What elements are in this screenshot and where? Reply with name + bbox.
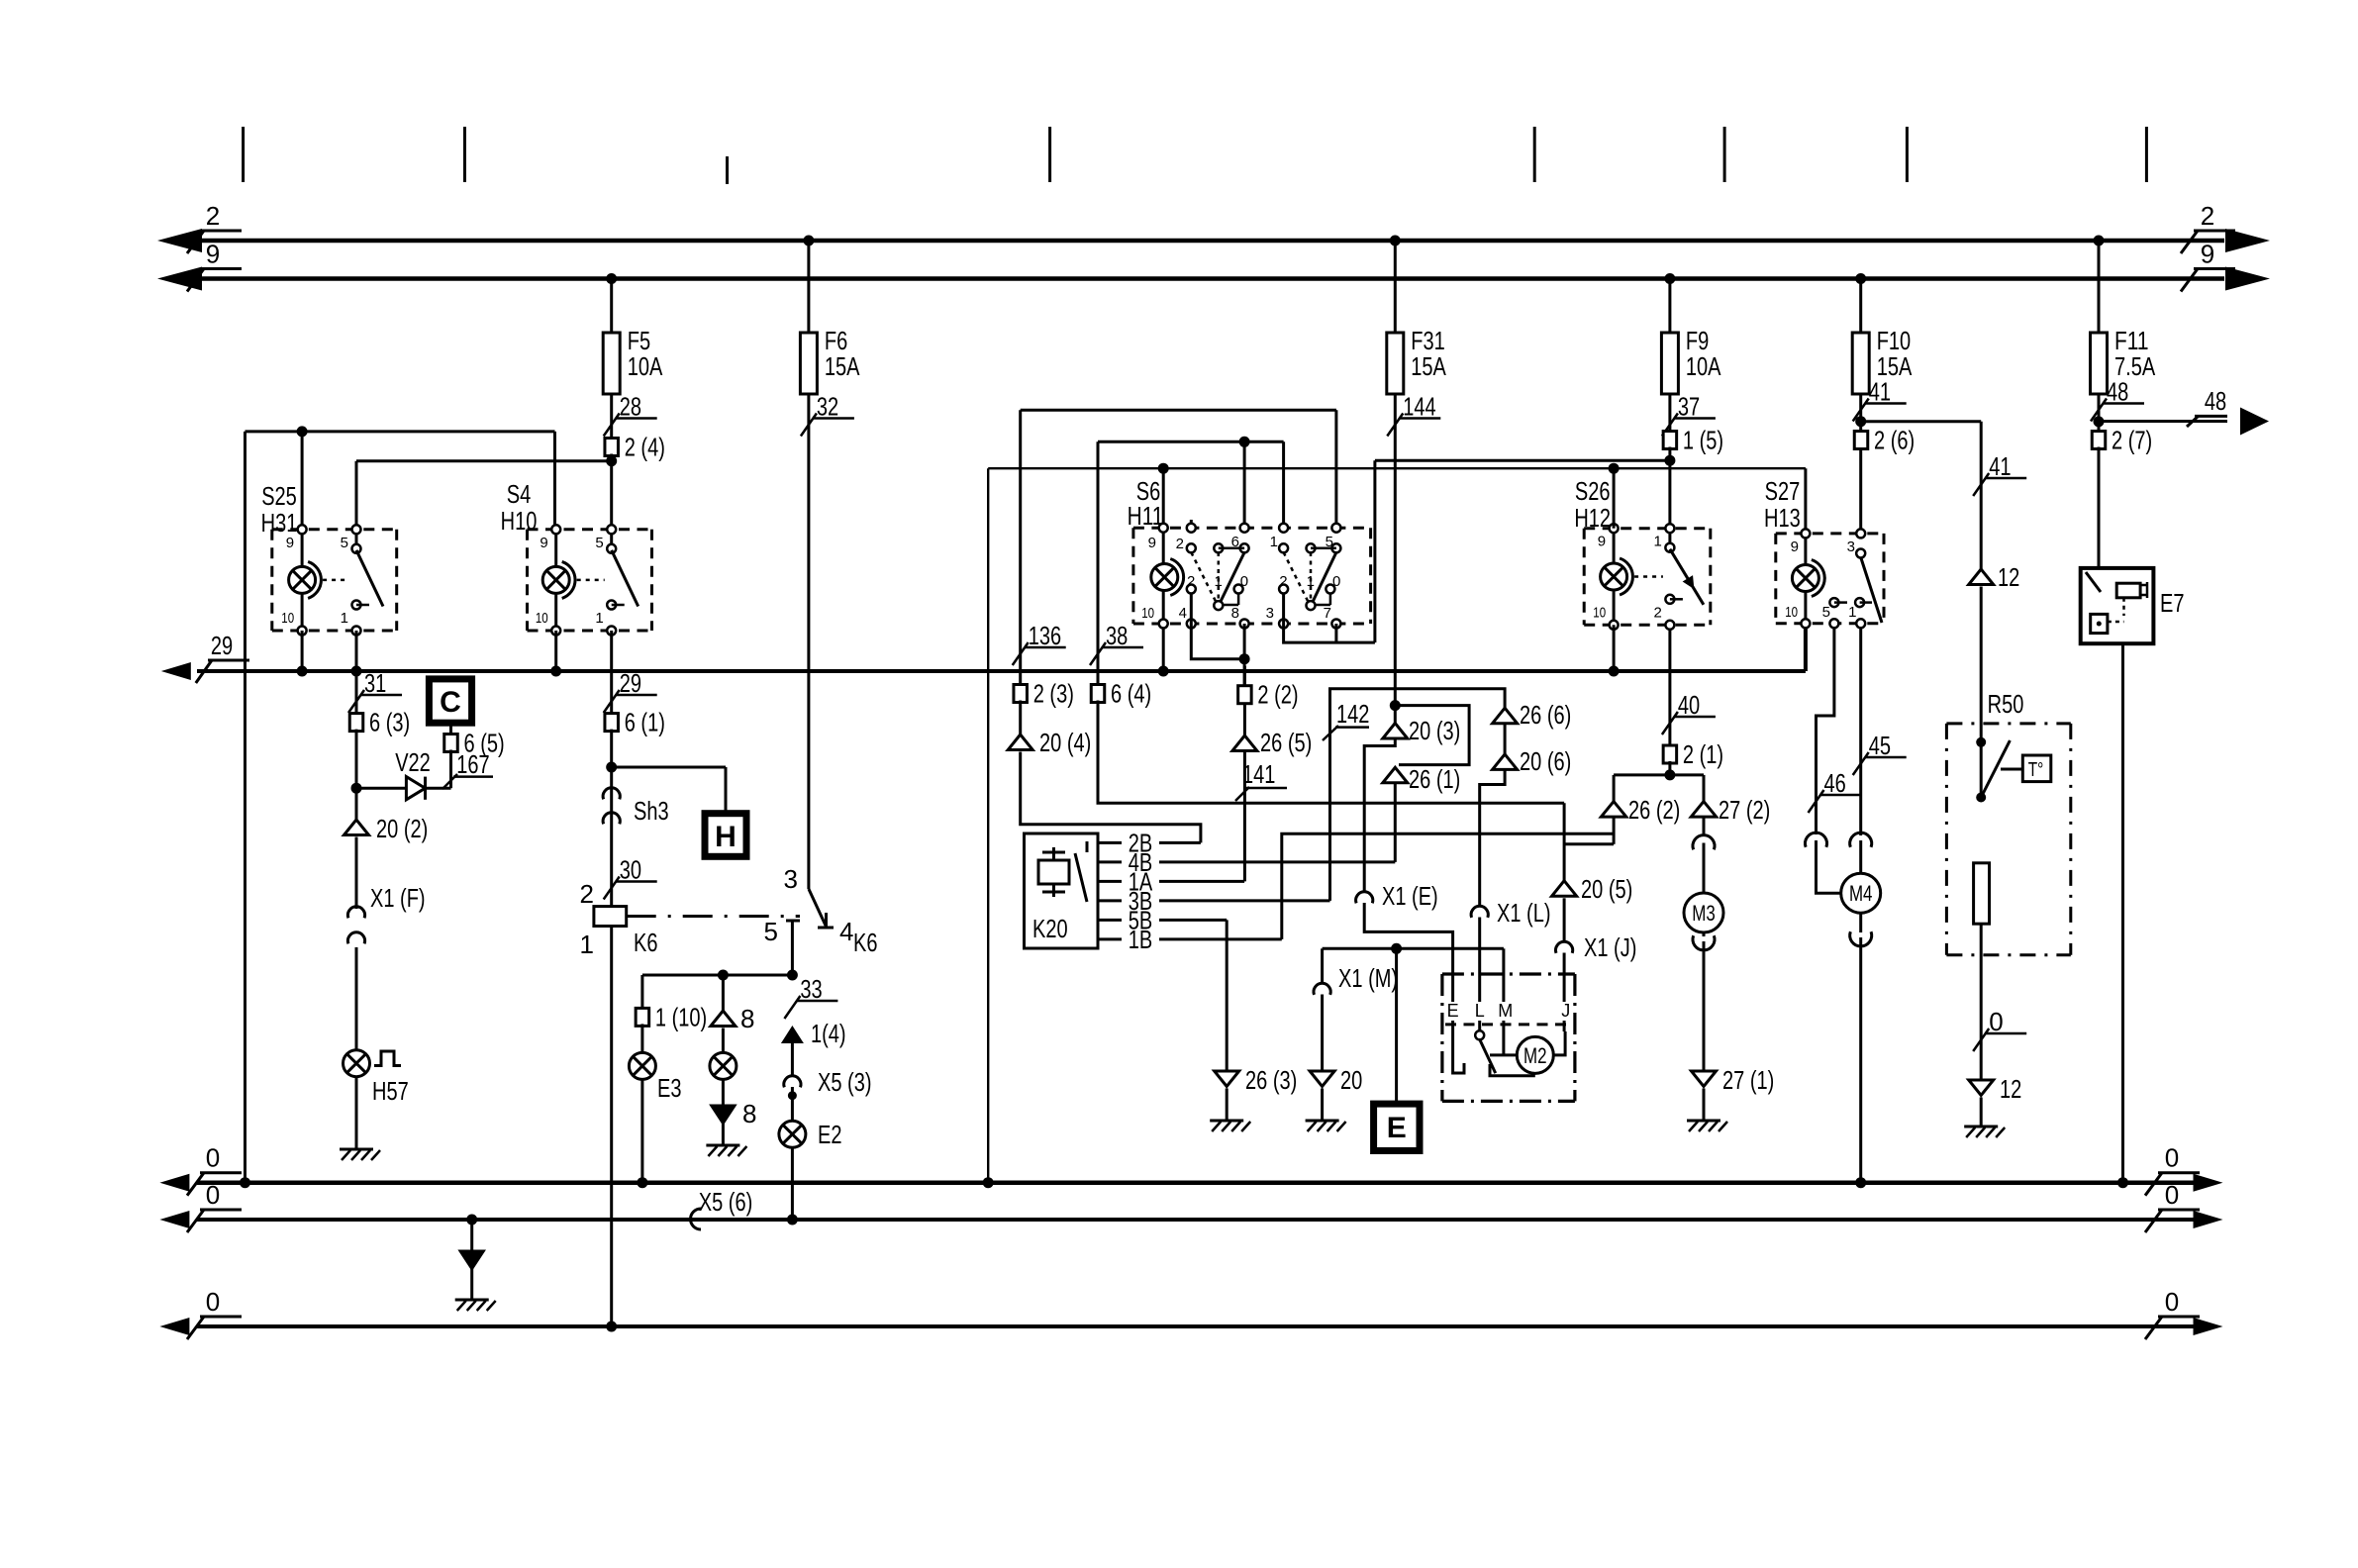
svg-text:2 (7): 2 (7) (2112, 426, 2152, 455)
svg-text:2 (1): 2 (1) (1683, 739, 1723, 769)
svg-text:X5 (3): X5 (3) (818, 1067, 872, 1097)
svg-text:6 (1): 6 (1) (625, 708, 665, 737)
svg-text:144: 144 (1403, 392, 1435, 422)
svg-text:3: 3 (1847, 539, 1855, 555)
svg-text:6 (3): 6 (3) (369, 708, 410, 737)
svg-text:5: 5 (764, 917, 778, 946)
svg-text:H57: H57 (372, 1076, 409, 1106)
svg-text:10: 10 (1141, 605, 1154, 622)
svg-text:8: 8 (1231, 605, 1239, 622)
svg-text:0: 0 (206, 1143, 220, 1173)
svg-text:0: 0 (2165, 1180, 2179, 1210)
svg-text:1 (10): 1 (10) (655, 1002, 707, 1031)
svg-text:1(4): 1(4) (811, 1019, 846, 1048)
svg-text:12: 12 (1998, 562, 2019, 592)
svg-text:5: 5 (595, 535, 603, 551)
svg-text:10A: 10A (1686, 351, 1721, 381)
svg-text:X1 (J): X1 (J) (1584, 932, 1636, 962)
svg-text:136: 136 (1029, 621, 1061, 650)
svg-text:48: 48 (2107, 377, 2128, 407)
svg-text:2 (2): 2 (2) (1257, 680, 1298, 710)
svg-text:12: 12 (2000, 1074, 2021, 1104)
svg-text:29: 29 (620, 668, 641, 698)
svg-text:32: 32 (817, 392, 838, 422)
svg-text:E: E (1447, 1001, 1459, 1021)
svg-text:141: 141 (1242, 759, 1275, 789)
svg-text:20 (5): 20 (5) (1581, 874, 1632, 904)
svg-text:0: 0 (2165, 1143, 2179, 1173)
svg-text:2 (3): 2 (3) (1033, 679, 1074, 709)
svg-text:H31: H31 (261, 508, 298, 538)
svg-text:5: 5 (341, 535, 348, 551)
svg-text:40: 40 (1678, 690, 1700, 720)
svg-text:1: 1 (595, 610, 603, 627)
svg-text:2: 2 (1176, 536, 1184, 552)
svg-text:26 (5): 26 (5) (1260, 728, 1312, 757)
svg-text:S27: S27 (1765, 476, 1801, 506)
svg-text:1: 1 (1848, 604, 1856, 621)
svg-text:45: 45 (1869, 731, 1891, 760)
svg-text:K6: K6 (853, 928, 878, 957)
svg-text:1 (5): 1 (5) (1683, 426, 1723, 455)
svg-text:2: 2 (1654, 604, 1662, 621)
svg-text:E7: E7 (2160, 588, 2185, 618)
svg-text:S4: S4 (507, 479, 532, 509)
svg-text:9: 9 (1598, 534, 1606, 550)
svg-text:4: 4 (839, 917, 853, 946)
svg-text:0: 0 (2165, 1287, 2179, 1317)
svg-text:3: 3 (784, 864, 798, 894)
svg-text:E: E (1387, 1112, 1407, 1144)
svg-text:2: 2 (580, 879, 594, 909)
svg-text:H10: H10 (501, 506, 538, 536)
svg-text:3: 3 (1266, 605, 1274, 622)
svg-text:20 (6): 20 (6) (1520, 746, 1571, 776)
svg-text:X1 (F): X1 (F) (370, 883, 426, 913)
svg-text:E2: E2 (818, 1120, 842, 1149)
svg-text:38: 38 (1106, 621, 1128, 650)
svg-text:R50: R50 (1988, 689, 2024, 719)
svg-text:9: 9 (1791, 539, 1799, 555)
svg-text:7: 7 (1324, 605, 1331, 622)
svg-text:9: 9 (540, 535, 547, 551)
svg-text:L: L (1475, 1001, 1485, 1021)
svg-text:15A: 15A (1411, 351, 1446, 381)
svg-text:K20: K20 (1032, 914, 1068, 943)
svg-text:9: 9 (286, 535, 294, 551)
svg-text:10: 10 (281, 610, 294, 627)
svg-text:27 (2): 27 (2) (1719, 795, 1770, 825)
svg-text:2 (4): 2 (4) (625, 433, 665, 462)
svg-text:33: 33 (800, 974, 822, 1004)
svg-text:10A: 10A (628, 351, 663, 381)
svg-text:X1 (E): X1 (E) (1382, 881, 1438, 911)
svg-text:6 (4): 6 (4) (1111, 679, 1151, 709)
svg-text:M2: M2 (1523, 1043, 1547, 1068)
svg-text:167: 167 (456, 749, 489, 779)
svg-text:26 (3): 26 (3) (1245, 1065, 1297, 1095)
svg-text:27 (1): 27 (1) (1722, 1065, 1774, 1095)
svg-text:H12: H12 (1574, 503, 1611, 533)
svg-text:31: 31 (364, 668, 386, 698)
svg-text:30: 30 (620, 855, 641, 885)
svg-text:2 (6): 2 (6) (1874, 426, 1915, 455)
svg-text:1B: 1B (1129, 925, 1153, 954)
svg-text:26 (2): 26 (2) (1628, 795, 1680, 825)
svg-text:46: 46 (1824, 768, 1846, 798)
svg-text:8: 8 (742, 1099, 756, 1128)
svg-text:142: 142 (1336, 699, 1369, 729)
svg-text:H13: H13 (1764, 503, 1801, 533)
svg-text:H: H (715, 821, 737, 853)
svg-text:29: 29 (211, 631, 233, 660)
svg-text:10: 10 (1785, 604, 1798, 621)
svg-text:37: 37 (1678, 392, 1700, 422)
svg-text:J: J (1561, 1001, 1570, 1021)
svg-text:V22: V22 (395, 747, 431, 777)
svg-text:M4: M4 (1849, 881, 1873, 906)
svg-text:X5 (6): X5 (6) (699, 1187, 753, 1217)
svg-text:8: 8 (740, 1004, 754, 1033)
svg-text:9: 9 (206, 240, 220, 269)
svg-text:C: C (440, 686, 461, 719)
svg-text:E3: E3 (657, 1073, 682, 1103)
svg-text:K6: K6 (634, 928, 658, 957)
svg-text:1: 1 (580, 930, 594, 959)
svg-text:20 (3): 20 (3) (1409, 716, 1460, 745)
svg-text:9: 9 (2201, 240, 2214, 269)
svg-text:41: 41 (1869, 377, 1891, 407)
svg-text:4: 4 (1179, 605, 1187, 622)
svg-text:2: 2 (2201, 201, 2214, 231)
svg-text:T°: T° (2028, 759, 2044, 781)
svg-text:S26: S26 (1575, 476, 1611, 506)
svg-text:9: 9 (1148, 535, 1156, 551)
svg-text:0: 0 (206, 1180, 220, 1210)
svg-text:26 (6): 26 (6) (1520, 700, 1571, 730)
svg-text:5: 5 (1822, 604, 1830, 621)
svg-text:28: 28 (620, 392, 641, 422)
svg-text:15A: 15A (825, 351, 860, 381)
svg-text:20: 20 (1340, 1065, 1362, 1095)
svg-text:48: 48 (2205, 386, 2226, 416)
svg-text:Sh3: Sh3 (634, 796, 669, 826)
svg-text:1: 1 (1654, 534, 1662, 550)
svg-text:1: 1 (341, 610, 348, 627)
svg-text:0: 0 (206, 1287, 220, 1317)
svg-text:10: 10 (536, 610, 548, 627)
svg-text:26 (1): 26 (1) (1409, 764, 1460, 794)
svg-text:M: M (1498, 1001, 1513, 1021)
svg-text:1: 1 (1270, 534, 1278, 550)
svg-text:10: 10 (1593, 604, 1606, 621)
svg-text:X1 (M): X1 (M) (1338, 963, 1398, 993)
svg-text:20 (4): 20 (4) (1039, 728, 1091, 757)
svg-text:M3: M3 (1692, 901, 1716, 926)
svg-text:X1 (L): X1 (L) (1497, 898, 1551, 928)
svg-text:2: 2 (206, 201, 220, 231)
svg-text:S25: S25 (261, 481, 297, 511)
svg-text:41: 41 (1989, 451, 2011, 481)
svg-text:20 (2): 20 (2) (376, 814, 428, 843)
svg-text:0: 0 (1989, 1007, 2003, 1036)
